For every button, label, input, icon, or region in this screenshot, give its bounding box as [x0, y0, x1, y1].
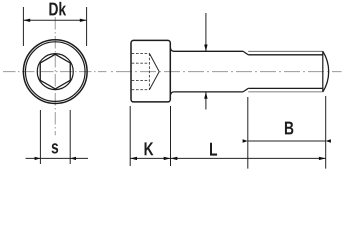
tip end arc	[323, 51, 329, 92]
thread crest line top	[248, 50, 323, 52]
vertical centerline (front view)	[54, 17, 56, 135]
Dk right arrow	[80, 19, 87, 22]
K extension line right	[170, 106, 172, 166]
horizontal centerline (front view)	[3, 71, 107, 73]
B right outside arrow	[326, 139, 331, 142]
thread root line top	[248, 54, 323, 56]
L dimension line	[171, 157, 326, 159]
label L	[210, 143, 217, 156]
socket hidden line bottom inner	[132, 79, 150, 81]
socket cone upper	[149, 53, 159, 71]
thread runout chamfer top	[243, 51, 248, 55]
head side outline	[131, 40, 170, 102]
K right arrow	[164, 157, 171, 160]
L left arrow	[171, 157, 178, 160]
socket hidden line bottom outer	[132, 89, 150, 91]
thread runout chamfer bottom	[243, 88, 248, 92]
shaft diameter upper arrow	[204, 45, 207, 52]
Dk extension line left	[22, 7, 24, 46]
thread root line bottom	[248, 87, 323, 89]
label B	[285, 122, 293, 135]
label Dk	[49, 2, 66, 15]
s dimension line	[26, 157, 88, 159]
s extension line left	[39, 110, 41, 164]
shank bottom line with fillet	[171, 92, 243, 95]
B dimension line	[248, 140, 326, 142]
shaft diameter dimension line lower	[205, 92, 207, 110]
B left outside arrow	[243, 139, 248, 142]
head outer circle Dk	[23, 40, 87, 104]
shank top line with fillet	[171, 49, 243, 52]
Dk left arrow	[23, 19, 30, 22]
B left extension line	[247, 97, 249, 169]
head chamfer inner circle	[25, 42, 85, 102]
K extension line left	[129, 106, 131, 166]
s right outside arrow	[70, 157, 76, 160]
s extension line right	[69, 110, 71, 164]
shaft diameter lower arrow	[204, 92, 207, 99]
L right extension line (shared with B)	[325, 96, 327, 169]
side view centerline	[111, 71, 342, 73]
socket hidden line top inner	[132, 62, 150, 64]
socket hidden line top outer	[132, 52, 150, 54]
s left outside arrow	[35, 157, 41, 160]
K dimension line	[130, 157, 170, 159]
L right arrow	[319, 157, 326, 160]
socket pilot circle	[37, 54, 73, 90]
hex socket	[40, 54, 70, 89]
label K	[145, 142, 154, 155]
Dk dimension line	[23, 19, 86, 21]
socket depth hidden line	[148, 53, 150, 89]
thread crest line bottom	[248, 91, 323, 93]
tip chamfer edge	[322, 51, 324, 92]
label s	[52, 143, 59, 153]
K left arrow	[130, 157, 137, 160]
socket cone lower	[149, 72, 159, 90]
Dk extension line right	[86, 7, 88, 46]
shaft diameter dimension line upper	[205, 13, 207, 51]
